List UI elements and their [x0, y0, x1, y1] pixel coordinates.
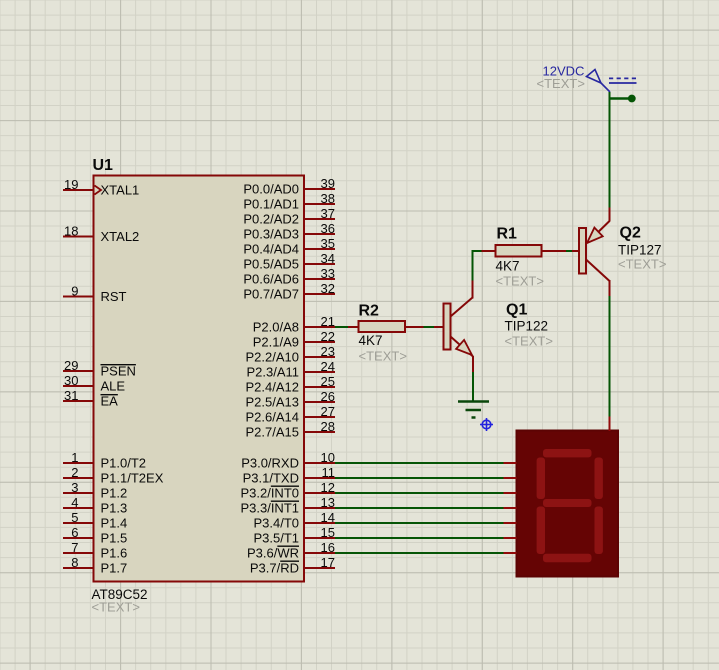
origin marker [480, 418, 493, 431]
svg-text:P0.1/AD1: P0.1/AD1 [243, 197, 299, 212]
wire P3.6/WR to display [335, 552, 504, 554]
svg-text:15: 15 [321, 525, 335, 540]
display pin stub at y=538 [504, 537, 517, 539]
wire P3.0/RXD to display [335, 462, 504, 464]
U1 pin 1 (P1.0/T2) [63, 450, 146, 471]
U1 pin 29 (PSEN) [63, 358, 136, 379]
svg-text:30: 30 [64, 373, 78, 388]
U1 pin 15 (P3.5/T1) [253, 525, 335, 546]
svg-text:7: 7 [71, 540, 78, 555]
svg-text:<TEXT>: <TEXT> [537, 76, 585, 91]
U1 pin 4 (P1.3) [63, 495, 127, 516]
svg-text:19: 19 [64, 177, 78, 192]
Q2 reference label [620, 225, 641, 242]
svg-text:22: 22 [321, 329, 335, 344]
U1 pin 37 (P0.2/AD2) [243, 206, 335, 227]
U1 pin 6 (P1.5) [63, 525, 127, 546]
svg-text:<TEXT>: <TEXT> [359, 349, 407, 364]
svg-text:12: 12 [321, 480, 335, 495]
svg-text:5: 5 [71, 510, 78, 525]
svg-text:P0.5/AD5: P0.5/AD5 [243, 257, 299, 272]
svg-text:P1.2: P1.2 [101, 486, 128, 501]
svg-text:9: 9 [71, 284, 78, 299]
svg-text:6: 6 [71, 525, 78, 540]
display pin stub at y=523 [504, 522, 517, 524]
U1 pin 23 (P2.2/A10) [246, 344, 336, 365]
U1 pin 33 (P0.6/AD6) [243, 266, 335, 287]
svg-text:P0.3/AD3: P0.3/AD3 [243, 227, 299, 242]
U1 value label AT89C52 [92, 587, 148, 602]
svg-text:<TEXT>: <TEXT> [496, 274, 544, 289]
wire Q1 emitter to ground [472, 372, 474, 401]
svg-text:EA: EA [101, 394, 119, 409]
U1 pin 38 (P0.1/AD1) [243, 191, 335, 212]
svg-text:17: 17 [321, 555, 335, 570]
U1 pin 2 (P1.1/T2EX) [63, 465, 164, 486]
U1 pin 36 (P0.3/AD3) [243, 221, 335, 242]
display segment g (middle) [543, 499, 592, 507]
Q1 property label <TEXT> [505, 334, 553, 349]
svg-text:4: 4 [71, 495, 78, 510]
display anode pin stub (top) [609, 417, 611, 432]
svg-text:1: 1 [71, 450, 78, 465]
svg-text:P3.4/T0: P3.4/T0 [253, 516, 299, 531]
display pin stub at y=478 [504, 477, 517, 479]
svg-text:21: 21 [321, 314, 335, 329]
svg-text:PSEN: PSEN [101, 364, 136, 379]
U1 pin 24 (P2.3/A11) [246, 359, 335, 380]
wire P3.3/INT1 to display [335, 507, 504, 509]
svg-text:R2: R2 [359, 303, 380, 320]
svg-text:TIP122: TIP122 [505, 319, 549, 334]
U1 pin 31 (EA) [63, 388, 118, 409]
svg-text:<TEXT>: <TEXT> [92, 600, 140, 615]
svg-text:P0.7/AD7: P0.7/AD7 [243, 287, 299, 302]
svg-text:P3.7/RD: P3.7/RD [250, 561, 299, 576]
svg-text:Q1: Q1 [506, 302, 527, 319]
wire P3.5/T1 to display [335, 537, 504, 539]
battery B1 12VDC symbol [587, 70, 637, 93]
svg-text:35: 35 [321, 236, 335, 251]
svg-text:P3.1/TXD: P3.1/TXD [243, 471, 299, 486]
display segment a (top) [543, 449, 592, 457]
U1 pin 18 (XTAL2) [63, 224, 139, 245]
U1 pin 25 (P2.4/A12) [246, 374, 336, 395]
svg-text:28: 28 [321, 419, 335, 434]
U1 pin 39 (P0.0/AD0) [243, 176, 335, 197]
svg-text:P2.1/A9: P2.1/A9 [253, 335, 299, 350]
wire battery to Q2 emitter [610, 92, 633, 208]
svg-text:14: 14 [321, 510, 335, 525]
svg-text:18: 18 [64, 224, 78, 239]
U1 pin 5 (P1.4) [63, 510, 127, 531]
svg-text:2: 2 [71, 465, 78, 480]
svg-text:27: 27 [321, 404, 335, 419]
svg-text:11: 11 [322, 465, 336, 480]
svg-text:P1.0/T2: P1.0/T2 [101, 456, 147, 471]
svg-text:TIP127: TIP127 [618, 243, 662, 258]
svg-text:P2.7/A15: P2.7/A15 [246, 425, 300, 440]
svg-text:34: 34 [321, 251, 335, 266]
svg-text:XTAL2: XTAL2 [101, 229, 140, 244]
U1 property label <TEXT> [92, 600, 140, 615]
U1 pin 21 (P2.0/A8) [253, 314, 335, 335]
wire P2.0/A8 to R2 [335, 326, 349, 328]
svg-text:P1.6: P1.6 [101, 546, 128, 561]
svg-text:P1.4: P1.4 [101, 516, 128, 531]
svg-text:4K7: 4K7 [496, 259, 520, 274]
U1 pin 34 (P0.5/AD5) [243, 251, 335, 272]
R2 value label 4K7 [359, 333, 383, 348]
svg-text:33: 33 [321, 266, 335, 281]
svg-text:<TEXT>: <TEXT> [618, 257, 666, 272]
svg-text:XTAL1: XTAL1 [101, 183, 140, 198]
display segment e (lower left) [537, 507, 545, 555]
svg-text:P2.6/A14: P2.6/A14 [246, 410, 300, 425]
svg-text:31: 31 [64, 388, 78, 403]
svg-text:3: 3 [71, 480, 78, 495]
U1 pin 30 (ALE) [63, 373, 125, 394]
svg-text:ALE: ALE [101, 379, 126, 394]
U1 pin 19 (XTAL1) [63, 177, 139, 198]
wire P3.4/T0 to display [335, 522, 504, 524]
display segment b (upper right) [595, 458, 603, 500]
12VDC value label [543, 64, 585, 79]
svg-text:P1.3: P1.3 [101, 501, 128, 516]
U1 pin 32 (P0.7/AD7) [243, 281, 335, 302]
transistor Q2 TIP127 [572, 208, 610, 297]
svg-text:P2.2/A10: P2.2/A10 [246, 350, 300, 365]
svg-text:38: 38 [321, 191, 335, 206]
svg-text:29: 29 [64, 358, 78, 373]
svg-text:P1.7: P1.7 [101, 561, 128, 576]
svg-text:36: 36 [321, 221, 335, 236]
wire Q1 collector to R1 [472, 250, 483, 281]
svg-text:P3.5/T1: P3.5/T1 [253, 531, 299, 546]
U1 pin 26 (P2.5/A13) [246, 389, 336, 410]
svg-text:<TEXT>: <TEXT> [505, 334, 553, 349]
U1 pin 7 (P1.6) [63, 540, 127, 561]
svg-text:P0.6/AD6: P0.6/AD6 [243, 272, 299, 287]
U1 pin 10 (P3.0/RXD) [241, 450, 335, 471]
resistor R2 [348, 321, 424, 332]
Q1 value label TIP122 [505, 319, 549, 334]
svg-text:39: 39 [321, 176, 335, 191]
svg-text:U1: U1 [93, 157, 114, 174]
transistor Q1 TIP122 [434, 280, 473, 373]
svg-text:R1: R1 [497, 226, 518, 243]
svg-text:13: 13 [321, 495, 335, 510]
svg-text:4K7: 4K7 [359, 333, 383, 348]
svg-text:P1.1/T2EX: P1.1/T2EX [101, 471, 164, 486]
battery property label <TEXT> [537, 76, 585, 91]
display pin stub at y=553 [504, 552, 517, 554]
U1 pin 27 (P2.6/A14) [246, 404, 336, 425]
svg-text:P3.0/RXD: P3.0/RXD [241, 456, 299, 471]
wire P3.1/TXD to display [335, 477, 504, 479]
svg-text:P2.0/A8: P2.0/A8 [253, 320, 299, 335]
U1 pin 16 (P3.6/WR) [247, 540, 335, 561]
display segment d (bottom) [543, 554, 592, 562]
display pin stub at y=508 [504, 507, 517, 509]
U1 pin 22 (P2.1/A9) [253, 329, 335, 350]
U1 reference label [93, 157, 114, 174]
R2 reference label [359, 303, 380, 320]
U1 pin 12 (P3.2/INT0) [240, 480, 335, 501]
Q2 value label TIP127 [618, 243, 662, 258]
U1 pin 14 (P3.4/T0) [253, 510, 335, 531]
wire P3.2/INT0 to display [335, 492, 504, 494]
svg-text:25: 25 [321, 374, 335, 389]
svg-text:P2.4/A12: P2.4/A12 [246, 380, 300, 395]
wire Q2 collector to display anode [609, 296, 611, 417]
svg-text:8: 8 [71, 555, 78, 570]
svg-text:23: 23 [321, 344, 335, 359]
wire R2 to Q1 base [424, 326, 435, 328]
microcontroller U1 body [94, 176, 305, 582]
svg-text:16: 16 [321, 540, 335, 555]
U1 pin 8 (P1.7) [63, 555, 127, 576]
R1 reference label [497, 226, 518, 243]
svg-text:26: 26 [321, 389, 335, 404]
R2 property label <TEXT> [359, 349, 407, 364]
U1 pin 3 (P1.2) [63, 480, 127, 501]
U1 pin 17 (P3.7/RD) [250, 555, 335, 576]
svg-text:10: 10 [321, 450, 335, 465]
ground symbol [458, 402, 489, 418]
resistor R1 [482, 245, 567, 257]
svg-text:24: 24 [321, 359, 335, 374]
svg-text:Q2: Q2 [620, 225, 641, 242]
display segment f (upper left) [537, 458, 545, 500]
display segment c (lower right) [595, 507, 603, 555]
7-segment display body [517, 431, 619, 577]
U1 pin 11 (P3.1/TXD) [243, 465, 335, 486]
U1 pin 9 (RST) [63, 284, 127, 305]
svg-text:37: 37 [321, 206, 335, 221]
svg-text:P3.2/INT0: P3.2/INT0 [240, 486, 299, 501]
svg-text:P0.4/AD4: P0.4/AD4 [243, 242, 299, 257]
junction dot at battery terminal [628, 95, 636, 103]
svg-text:P2.5/A13: P2.5/A13 [246, 395, 300, 410]
U1 pin 13 (P3.3/INT1) [240, 495, 335, 516]
wire R1 to Q2 base [566, 250, 572, 252]
svg-text:32: 32 [321, 281, 335, 296]
Q2 property label <TEXT> [618, 257, 666, 272]
svg-text:P0.2/AD2: P0.2/AD2 [243, 212, 299, 227]
svg-text:P2.3/A11: P2.3/A11 [246, 365, 299, 380]
svg-text:P3.6/WR: P3.6/WR [247, 546, 299, 561]
Q1 reference label [506, 302, 527, 319]
R1 property label <TEXT> [496, 274, 544, 289]
svg-text:P0.0/AD0: P0.0/AD0 [243, 182, 299, 197]
display pin stub at y=463 [504, 462, 517, 464]
svg-text:RST: RST [101, 289, 127, 304]
R1 value label 4K7 [496, 259, 520, 274]
U1 pin 28 (P2.7/A15) [246, 419, 336, 440]
display pin stub at y=493 [504, 492, 517, 494]
svg-text:P3.3/INT1: P3.3/INT1 [240, 501, 299, 516]
svg-text:P1.5: P1.5 [101, 531, 128, 546]
U1 pin 35 (P0.4/AD4) [243, 236, 335, 257]
